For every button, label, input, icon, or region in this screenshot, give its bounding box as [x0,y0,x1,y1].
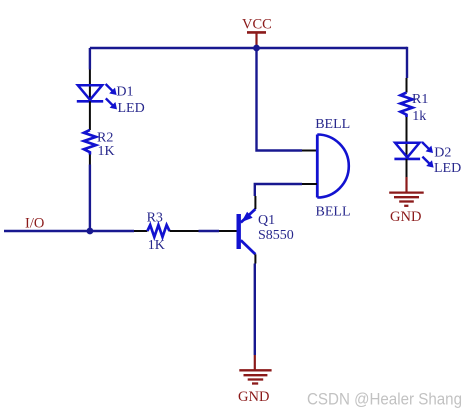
diode D1 LED symbol [77,84,117,109]
resistor R3 [147,225,169,237]
svg-text:LED: LED [434,161,461,176]
svg-text:D2: D2 [434,146,451,161]
ground (right) [389,177,424,206]
pin Q1 collector [254,254,256,263]
pin Q1 base [219,230,237,232]
pin R2 bottom [89,155,91,165]
transistor Q1 [239,209,256,254]
svg-text:CSDN @Healer Shang: CSDN @Healer Shang [307,391,462,409]
svg-text:R1: R1 [412,92,428,107]
wire I/O horizontal [4,230,134,232]
pin BELL top [302,150,317,152]
pin D1 cathode / R2 top [89,101,91,130]
ground (bottom) [239,355,271,384]
pin BELL bottom [302,183,317,185]
wire VCC to bell top [257,48,303,151]
pin R1 bottom / D2 anode [406,117,408,159]
wire bell bottom to Q1 emitter [255,184,302,196]
svg-text:LED: LED [118,101,145,116]
resistor R2 [84,130,96,155]
svg-text:I/O: I/O [25,216,44,232]
wire R3 to Q1 base [199,230,220,232]
svg-text:BELL: BELL [316,205,351,220]
wire Q1 collector to ground [254,264,256,356]
pin R1 top [406,78,408,93]
svg-text:Q1: Q1 [258,213,275,228]
buzzer BELL [317,135,349,198]
node I/O junction [87,228,94,235]
resistor R1 [401,93,413,118]
pin R3 left [134,230,147,232]
svg-text:1K: 1K [98,144,115,159]
svg-text:GND: GND [390,209,421,225]
wire left branch down from rail [89,48,91,70]
node VCC junction [253,45,260,52]
pin R3 right [170,230,199,232]
svg-text:1k: 1k [412,109,426,124]
wire top rail [90,47,407,49]
power symbol VCC [242,17,272,48]
svg-text:S8550: S8550 [258,228,294,243]
svg-text:D1: D1 [116,85,133,100]
pin D2 cathode [406,159,408,177]
svg-text:GND: GND [238,389,269,405]
pin Q1 emitter [254,196,256,209]
svg-text:BELL: BELL [315,117,350,132]
wire rail to R1 [406,47,408,78]
diode D2 LED symbol [394,142,433,168]
svg-text:VCC: VCC [242,17,272,33]
svg-text:1K: 1K [148,238,165,253]
wire left branch to I/O node [89,165,91,232]
svg-text:R3: R3 [147,210,163,225]
pin D1 anode [89,70,91,101]
